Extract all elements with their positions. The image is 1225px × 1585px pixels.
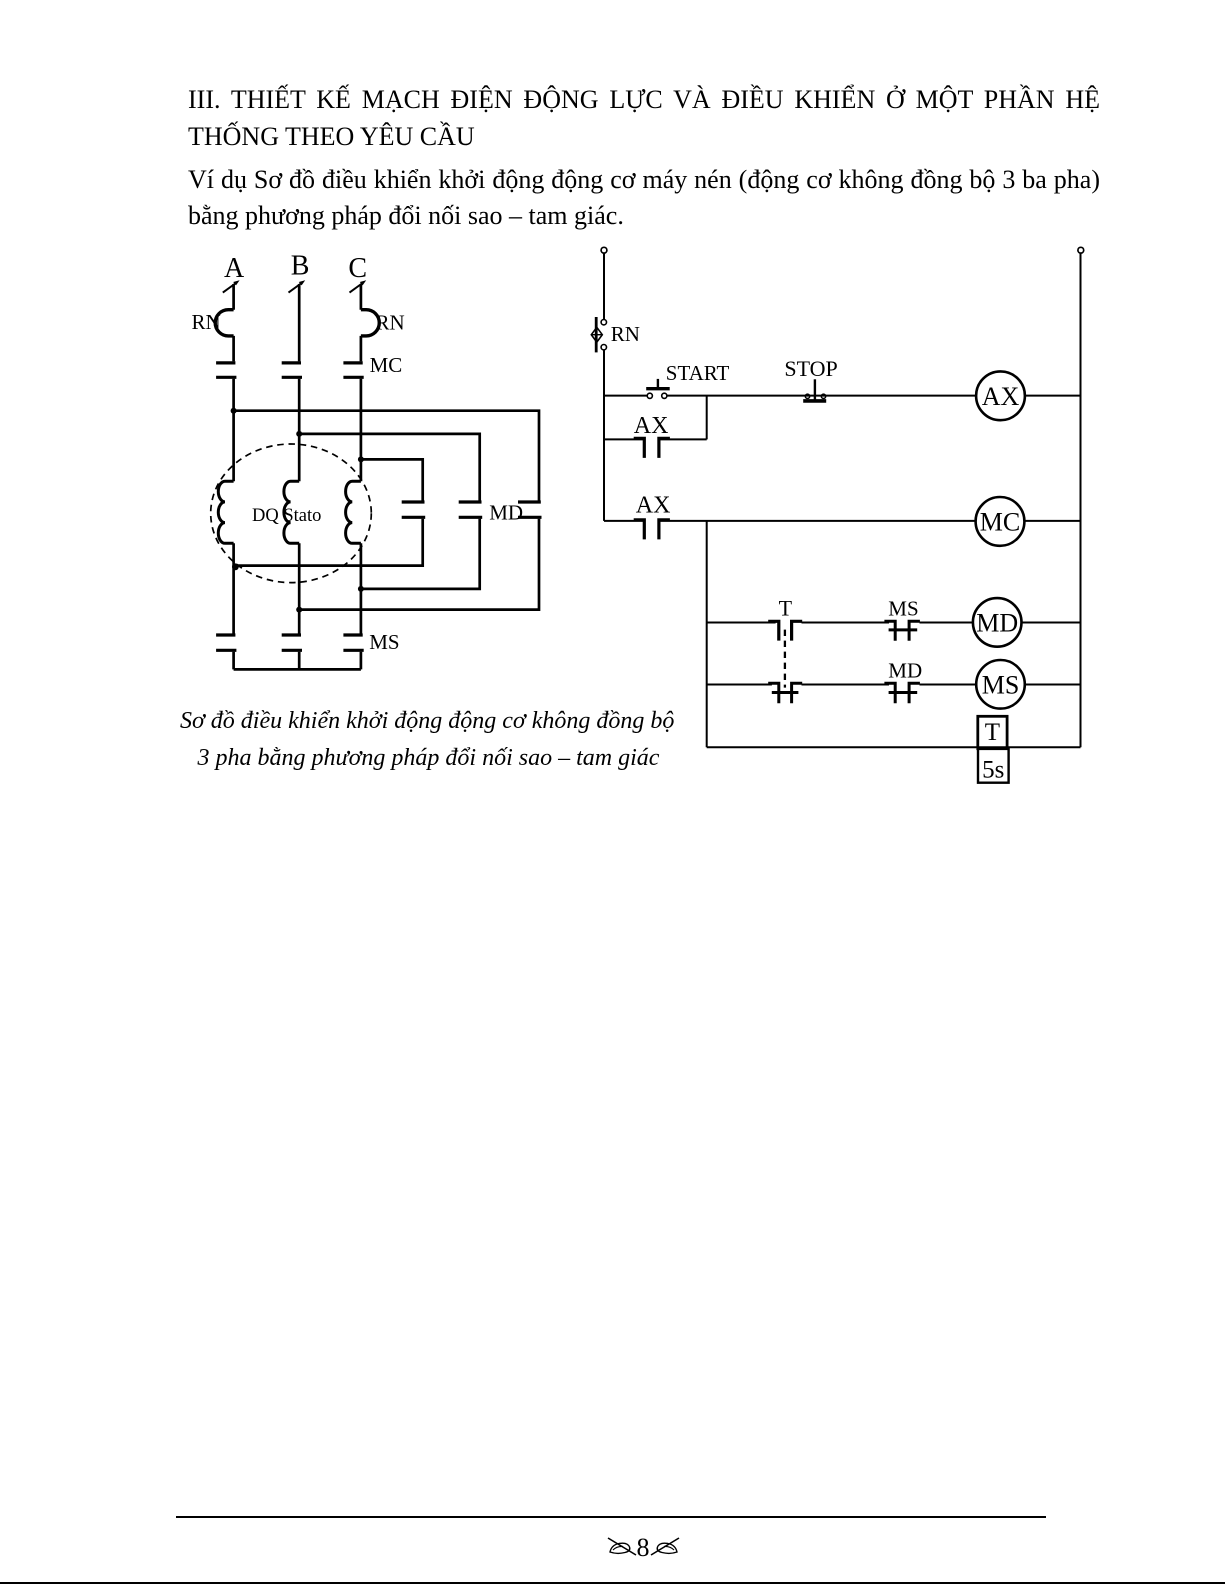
contact MD NC rung4: [884, 683, 920, 703]
svg-text:MC: MC: [370, 353, 403, 377]
page number 8: [637, 1533, 650, 1563]
caption line 1: [180, 708, 674, 735]
wire delta branch from A: [234, 411, 539, 501]
wire branch rung1 to AX contact rung: [706, 396, 708, 440]
wire bottom rung: [707, 746, 1081, 748]
relay coil AX: [976, 371, 1025, 420]
relay coil MS: [976, 660, 1025, 709]
svg-text:RN: RN: [611, 322, 640, 346]
relay coil MD: [973, 598, 1022, 647]
wire rung 4: [707, 684, 1081, 686]
pushbutton START: [646, 379, 670, 399]
svg-text:5s: 5s: [982, 757, 1004, 784]
pushbutton STOP: [803, 379, 826, 401]
wire left rail: [603, 253, 605, 521]
wire delta branch from C: [361, 459, 423, 500]
wire sub-branch vertical: [706, 521, 708, 747]
timer T box: [978, 716, 1007, 748]
timer link dashed: [784, 630, 786, 688]
wire right rail: [1080, 253, 1082, 747]
timer setting 5s box: [978, 749, 1009, 783]
svg-text:MD: MD: [888, 658, 922, 682]
thermal overload RN phase C: [361, 310, 379, 336]
phase B supply arrow: [289, 280, 306, 292]
stator winding phase B: [284, 481, 299, 543]
svg-text:A: A: [224, 253, 245, 284]
svg-text:MD: MD: [489, 501, 523, 525]
wire phase A: [232, 284, 235, 669]
svg-text:MS: MS: [888, 597, 918, 621]
wire delta return C-branch to A: [234, 519, 423, 566]
junction node on B: [296, 431, 302, 437]
relay coil MC: [976, 497, 1025, 546]
stator boundary dashed circle: [211, 444, 372, 583]
svg-text:MS: MS: [982, 670, 1020, 699]
wire rung 2: [604, 520, 1081, 522]
wire AX seal-in rung: [604, 438, 707, 440]
svg-text:DQ Stato: DQ Stato: [252, 506, 321, 526]
svg-text:B: B: [291, 250, 310, 281]
thermal relay contact RN: [591, 317, 606, 352]
contactor contact MC phase C: [343, 363, 363, 377]
caption line 2: [198, 745, 660, 772]
svg-text:T: T: [985, 719, 1000, 746]
svg-text:AX: AX: [636, 492, 671, 518]
wire phase C: [360, 284, 363, 669]
footer ornament left: [606, 1535, 639, 1558]
svg-text:MC: MC: [980, 507, 1020, 536]
wire rung 3: [707, 622, 1081, 624]
footer rule: [176, 1516, 1046, 1518]
junction node A lower: [232, 563, 239, 570]
stator winding phase C: [346, 481, 361, 543]
contactor contact MC phase A: [216, 363, 236, 377]
footer ornament right: [648, 1535, 681, 1558]
contactor contact MC phase B: [282, 363, 302, 377]
junction node B lower: [296, 607, 302, 613]
body line 2: [188, 201, 624, 231]
svg-text:AX: AX: [634, 413, 669, 439]
body line 1: [188, 165, 1100, 195]
heading line 2: [188, 122, 475, 152]
junction node on C: [358, 456, 364, 462]
svg-text:MS: MS: [369, 630, 399, 654]
svg-text:T: T: [779, 596, 793, 621]
thermal overload RN phase A: [215, 310, 233, 336]
svg-text:STOP: STOP: [784, 356, 837, 381]
phase A supply arrow: [223, 280, 240, 292]
contactor contact MD branch B: [459, 502, 483, 517]
junction node on A: [231, 408, 237, 414]
wire delta return B-branch to C: [361, 519, 480, 589]
stator winding phase A: [218, 481, 233, 543]
timed contact T rung3: [768, 621, 802, 640]
phase C supply arrow: [350, 280, 367, 292]
wire delta return A-branch to B: [299, 519, 539, 610]
junction node C lower: [358, 586, 364, 592]
contact AX rung2: [634, 520, 670, 540]
svg-text:MD: MD: [976, 608, 1018, 637]
contact MS NC rung3: [884, 621, 920, 641]
contactor contact MS phase A: [216, 635, 236, 650]
wire phase B: [298, 284, 301, 669]
svg-text:C: C: [348, 253, 367, 284]
contactor contact MD branch C: [402, 502, 426, 517]
contactor contact MD branch A: [518, 502, 542, 517]
svg-text:RN: RN: [192, 310, 221, 334]
svg-text:START: START: [666, 361, 730, 385]
timed contact T NC rung4: [768, 683, 802, 703]
page bottom edge line: [0, 1582, 1225, 1585]
wire star tie bar: [234, 668, 361, 671]
svg-text:AX: AX: [982, 382, 1020, 411]
svg-text:RN: RN: [376, 311, 405, 335]
wire delta branch from B: [299, 434, 480, 501]
node L2 terminal: [1078, 247, 1084, 253]
wire rung 1: [604, 395, 1081, 397]
contactor contact MS phase C: [343, 635, 363, 650]
contact AX seal-in: [634, 438, 670, 458]
contactor contact MS phase B: [282, 635, 302, 650]
node L1 terminal: [601, 247, 607, 253]
heading line 1: [188, 85, 1100, 115]
